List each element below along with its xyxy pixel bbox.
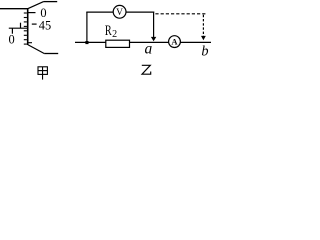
svg-text:45: 45 bbox=[39, 19, 51, 33]
thimble top outline diagonal bbox=[27, 2, 43, 9]
svg-text:b: b bbox=[201, 44, 208, 60]
main wire bbox=[75, 41, 211, 43]
dashed wire horizontal to b bbox=[155, 13, 205, 15]
voltmeter V bbox=[113, 5, 126, 18]
thimble bottom right tick bbox=[29, 42, 33, 44]
label jia (caption of left figure) bbox=[38, 67, 47, 80]
thimble 0 reading tick (right of bar) bbox=[29, 12, 36, 14]
svg-text:0: 0 bbox=[8, 33, 14, 47]
thimble edge bar bbox=[27, 8, 29, 45]
svg-text:a: a bbox=[145, 41, 153, 58]
main scale 0 tick (below line) bbox=[11, 28, 13, 34]
voltmeter branch: left horizontal wire bbox=[86, 11, 113, 13]
thimble scale ticks (left of bar) bbox=[24, 9, 27, 45]
thimble bottom outline edge bbox=[44, 53, 58, 55]
micrometer sleeve top edge bbox=[0, 8, 28, 10]
svg-text:V: V bbox=[116, 8, 123, 18]
dashed wire vertical down to b with arrowhead bbox=[202, 15, 204, 37]
voltmeter branch: right horizontal wire bbox=[126, 11, 154, 13]
thimble 45 reading dash bbox=[32, 23, 37, 25]
ammeter A bbox=[169, 36, 181, 48]
svg-text:A: A bbox=[171, 36, 178, 46]
resistor R2 box bbox=[106, 40, 130, 47]
label yi (caption of right figure) bbox=[142, 65, 151, 74]
solid lead down to node a with arrowhead bbox=[153, 12, 155, 38]
voltmeter branch: left vertical wire bbox=[86, 12, 88, 42]
thimble bottom outline diagonal bbox=[28, 45, 44, 54]
junction dot bbox=[85, 41, 88, 44]
svg-text:2: 2 bbox=[112, 29, 117, 40]
thimble top outline edge bbox=[44, 1, 58, 3]
micrometer sleeve reference line bbox=[9, 27, 28, 29]
main scale half tick (above line) bbox=[20, 23, 22, 29]
